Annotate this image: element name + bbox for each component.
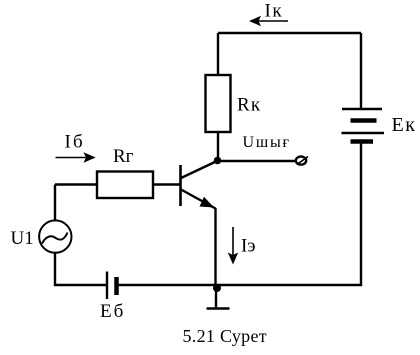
wire top to Rk (217, 33, 219, 76)
arrow Ik current (249, 16, 288, 26)
transistor VT base bar (179, 165, 182, 206)
battery Ek plate4 thick (351, 139, 374, 144)
resistor Rk (206, 75, 231, 132)
transistor VT emitter lead (181, 190, 216, 209)
svg-text:Iк: Iк (265, 1, 284, 22)
wire bottom right (118, 284, 362, 286)
battery Ek plate2 thick (351, 118, 377, 123)
wire right vertical upper (360, 33, 362, 109)
wire right vertical lower (360, 144, 362, 287)
arrow Ie current (228, 227, 238, 265)
svg-text:Iэ: Iэ (241, 236, 255, 257)
node collector junction (214, 157, 222, 165)
battery Eb short thick plate (114, 277, 119, 295)
svg-text:Еб: Еб (100, 301, 125, 322)
source U1 sine (42, 233, 68, 244)
wire top horizontal (218, 32, 361, 34)
svg-text:Iб: Iб (65, 132, 85, 153)
source U1 circle (39, 220, 71, 252)
arrow Ib current (56, 152, 96, 162)
ground stub (215, 286, 217, 308)
terminal Ushyg output (296, 157, 308, 165)
transistor VT collector lead (181, 161, 217, 178)
ground bar (207, 307, 230, 310)
node emitter bottom junction (213, 284, 221, 292)
battery Ek plate3 long (342, 132, 385, 134)
svg-text:U1: U1 (11, 228, 34, 249)
wire left vertical upper (54, 185, 56, 221)
transistor VT emitter arrowhead (200, 197, 215, 208)
svg-text:Uшығ: Uшығ (243, 134, 291, 151)
wire left vertical lower (54, 253, 56, 286)
wire base left (55, 183, 97, 185)
svg-text:Rг: Rг (113, 146, 134, 167)
battery Eb long plate (106, 272, 108, 300)
wire bottom left (54, 284, 106, 286)
svg-text:5.21 Сурет: 5.21 Сурет (183, 326, 267, 346)
wire output (218, 160, 297, 162)
wire base right (153, 183, 180, 185)
wire emitter vertical (214, 208, 216, 285)
wire Rk to collector node (217, 132, 219, 161)
resistor Rg (97, 172, 153, 199)
battery Ek plate1 long (342, 108, 382, 110)
svg-text:Eк: Eк (392, 114, 417, 136)
svg-text:Rк: Rк (237, 95, 261, 116)
